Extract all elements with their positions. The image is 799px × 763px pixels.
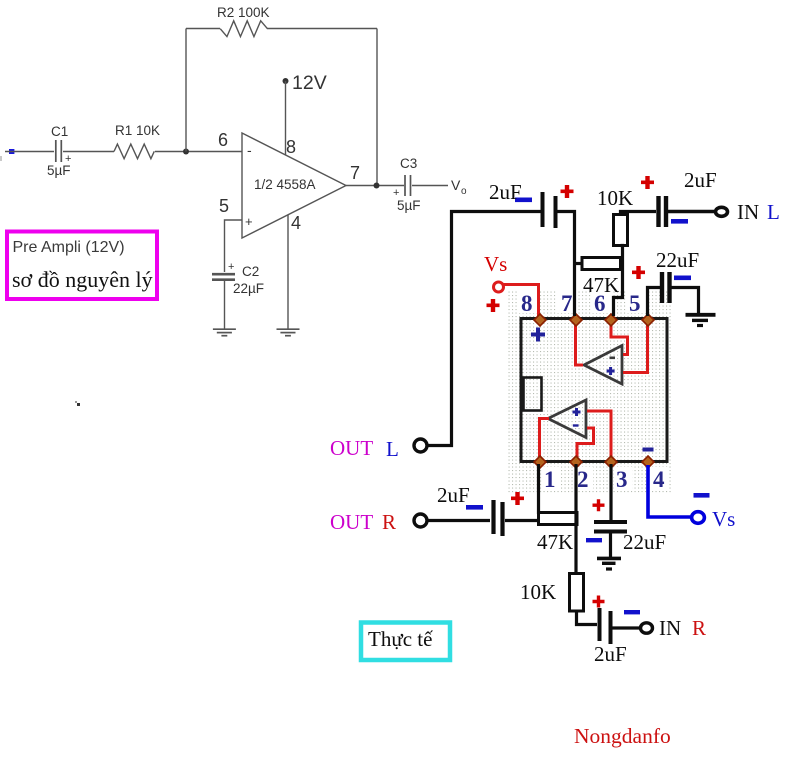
op-amp A minus bbox=[610, 357, 616, 360]
white patch pin 1 bbox=[542, 467, 560, 489]
pin pad 5 bbox=[642, 314, 654, 326]
wire R1 to op-amp bbox=[155, 151, 242, 153]
svg-text:L: L bbox=[767, 200, 780, 224]
svg-text:5µF: 5µF bbox=[47, 163, 71, 178]
svg-text:2: 2 bbox=[577, 467, 589, 492]
ground below C2 bbox=[213, 328, 236, 330]
svg-text:12V: 12V bbox=[292, 72, 327, 94]
op-amp B plus bbox=[573, 408, 581, 416]
svg-text:C2: C2 bbox=[242, 264, 259, 279]
resistor R1 10K bbox=[114, 144, 154, 159]
svg-text:5µF: 5µF bbox=[397, 198, 421, 213]
minus Vs bottom bbox=[694, 493, 710, 498]
ground bottom bbox=[597, 557, 621, 561]
minus 2uF out L bbox=[515, 198, 532, 203]
plus 22uF bottom bbox=[593, 499, 605, 511]
svg-text:1: 1 bbox=[544, 467, 556, 492]
svg-text:6: 6 bbox=[218, 130, 228, 150]
capacitor 22uF top right plate bbox=[667, 272, 671, 303]
svg-text:Pre Ampli (12V): Pre Ampli (12V) bbox=[13, 239, 125, 256]
red wire pin 5 to opamp A non-inverting input bbox=[623, 322, 648, 373]
input terminal blue square bbox=[9, 149, 14, 154]
minus IN R bbox=[624, 610, 640, 614]
svg-text:+: + bbox=[228, 261, 234, 273]
wire C2 to ground bbox=[224, 280, 226, 329]
wire 47K right lead bbox=[621, 262, 623, 265]
svg-text:R: R bbox=[692, 616, 706, 640]
capacitor C2 bbox=[212, 273, 235, 276]
plus 2uF IN L bbox=[641, 176, 654, 189]
svg-text:3: 3 bbox=[616, 467, 628, 492]
resistor 10K bottom bbox=[570, 574, 584, 612]
wire input to C1 bbox=[5, 151, 54, 153]
svg-text:22uF: 22uF bbox=[656, 248, 699, 272]
wire C1 to R1 bbox=[63, 151, 114, 153]
wire pin 4 to Vs (blue) bbox=[648, 465, 704, 523]
pin 5 wire bbox=[225, 220, 243, 272]
white patch pin 5 bbox=[627, 291, 647, 313]
svg-text:OUT: OUT bbox=[330, 436, 373, 460]
capacitor 2uF out L left plate bbox=[541, 192, 545, 227]
pin pad 6 bbox=[605, 314, 617, 326]
wire pin 3 down bbox=[609, 464, 612, 520]
terminal IN R bbox=[641, 623, 653, 633]
resistor R2 100K bbox=[220, 21, 267, 37]
plus Vs top bbox=[487, 299, 500, 312]
minus 2uF OUT R bbox=[466, 505, 483, 510]
svg-text:22µF: 22µF bbox=[233, 281, 264, 296]
terminal OUT R bbox=[414, 514, 427, 527]
plus IN R bbox=[593, 596, 605, 608]
wire top left bbox=[186, 28, 220, 30]
pin pad 1 bbox=[534, 456, 546, 468]
capacitor C3 bbox=[404, 175, 406, 196]
svg-text:Nongdanfo: Nongdanfo bbox=[574, 724, 671, 748]
ground below pin 4 bbox=[277, 328, 300, 330]
IC U2 body outline bbox=[521, 319, 667, 462]
output node dot bbox=[374, 183, 380, 189]
wire IN L cap to terminal bbox=[668, 210, 714, 214]
svg-text:-: - bbox=[247, 142, 252, 158]
12V supply dot bbox=[283, 78, 289, 84]
wire cap to pin 7 drop bbox=[557, 212, 575, 317]
wire cap to 47K bottom bbox=[505, 519, 540, 522]
wire 10K bottom to IN R cap bbox=[577, 611, 598, 625]
plus 2uF OUT R bbox=[511, 492, 524, 505]
svg-text:47K: 47K bbox=[583, 273, 619, 297]
wire 10K bottom / 47K right to pin 6 bbox=[614, 246, 623, 317]
red wire pin 6 to opamp A inverting input bbox=[611, 322, 628, 355]
svg-text:Vs: Vs bbox=[484, 252, 507, 276]
op-amp U1 triangle bbox=[242, 133, 346, 238]
Thuc te box cyan bbox=[361, 623, 450, 661]
pin pad 2 bbox=[570, 456, 582, 468]
white patch pin 2 bbox=[575, 467, 593, 489]
svg-text:IN: IN bbox=[737, 200, 759, 224]
red wire pin 7 to opamp A output bbox=[576, 322, 584, 365]
capacitor 2uF IN L left plate bbox=[656, 196, 660, 227]
svg-text:8: 8 bbox=[286, 137, 296, 157]
svg-text:V: V bbox=[451, 177, 461, 193]
terminal Vs bottom bbox=[692, 512, 705, 524]
pin pad 3 bbox=[605, 456, 617, 468]
op-amp A (top) triangle bbox=[584, 346, 622, 385]
white patch pin 8 bbox=[518, 291, 538, 313]
minus 22uF bottom bbox=[586, 538, 602, 542]
capacitor 22uF top left plate bbox=[660, 272, 664, 303]
wire top right bbox=[267, 28, 377, 30]
white patch pin 7 bbox=[557, 291, 577, 313]
capacitor 2uF IN R right plate bbox=[609, 611, 613, 644]
svg-text:Vs: Vs bbox=[712, 507, 735, 531]
plus 22uF top bbox=[632, 266, 645, 279]
blue plus inside IC top-left bbox=[531, 328, 545, 342]
ground top right bbox=[686, 313, 716, 317]
terminal IN L bbox=[716, 207, 728, 216]
svg-text:sơ đồ nguyên lý: sơ đồ nguyên lý bbox=[12, 267, 153, 292]
svg-text:R: R bbox=[382, 510, 396, 534]
wire C3 to Vo bbox=[412, 185, 448, 187]
svg-text:7: 7 bbox=[350, 163, 360, 183]
white patch pin 6 bbox=[592, 291, 612, 313]
capacitor 22uF bottom top plate bbox=[594, 520, 627, 524]
svg-text:8: 8 bbox=[521, 291, 533, 316]
capacitor C1 bbox=[55, 140, 57, 162]
white patch pin 3 bbox=[614, 467, 632, 489]
thick wire OUT L riser bbox=[428, 212, 543, 446]
op-amp B (bottom) triangle bbox=[548, 400, 586, 438]
svg-text:5: 5 bbox=[629, 291, 641, 316]
svg-text:L: L bbox=[386, 437, 399, 461]
stray speck bbox=[75, 401, 77, 403]
svg-text:10K: 10K bbox=[597, 186, 633, 210]
op-amp B minus bbox=[573, 424, 579, 426]
white patch pin 4 bbox=[651, 467, 669, 489]
wire pin 1 down bbox=[537, 464, 540, 514]
red wire opamp B output to pin 1 bbox=[540, 419, 550, 460]
svg-text:IN: IN bbox=[659, 616, 681, 640]
resistor 47K bottom bbox=[539, 513, 578, 525]
svg-text:2uF: 2uF bbox=[489, 180, 522, 204]
capacitor 2uF out L right plate bbox=[554, 196, 558, 228]
terminal OUT L bbox=[414, 439, 427, 452]
svg-text:2uF: 2uF bbox=[684, 168, 717, 192]
capacitor 2uF IN R left plate bbox=[598, 608, 602, 641]
svg-text:4: 4 bbox=[653, 467, 665, 492]
svg-text:C3: C3 bbox=[400, 156, 417, 171]
resistor 10K top bbox=[614, 215, 628, 246]
wire 22uF to ground bottom bbox=[609, 533, 612, 558]
pin pad 8 bbox=[534, 314, 654, 468]
feedback wire left vertical bbox=[185, 29, 187, 152]
plus 2uF out L bbox=[561, 185, 574, 198]
red wire opamp B non-inverting input to pin 3 bbox=[587, 411, 611, 459]
pin 4 wire bbox=[287, 215, 289, 329]
wire 22uF to ground bbox=[671, 288, 699, 315]
svg-text:OUT: OUT bbox=[330, 510, 373, 534]
red wire opamp B inverting input to pin 2 bbox=[577, 428, 594, 459]
svg-text:22uF: 22uF bbox=[623, 530, 666, 554]
Vs top terminal red bbox=[494, 282, 504, 292]
svg-text:4: 4 bbox=[291, 213, 301, 233]
svg-text:5: 5 bbox=[219, 196, 229, 216]
red wire Vs to pin 8 bbox=[503, 285, 539, 317]
svg-text:Thực tế: Thực tế bbox=[368, 627, 433, 651]
title box Pre Ampli bbox=[7, 232, 157, 300]
wire pin 2 down bbox=[574, 464, 577, 574]
feedback wire right vertical bbox=[376, 29, 378, 186]
svg-text:R1 10K: R1 10K bbox=[115, 123, 160, 138]
minus 2uF IN L bbox=[671, 219, 688, 224]
wire OUT R terminal to cap bbox=[428, 519, 490, 522]
svg-text:R2 100K: R2 100K bbox=[217, 5, 270, 20]
wire pin 5 to 22uF bbox=[648, 288, 661, 317]
blue minus inside IC near pin 4 bbox=[643, 448, 654, 452]
svg-text:C1: C1 bbox=[51, 124, 68, 139]
capacitor 2uF OUT R right plate bbox=[500, 502, 504, 536]
pin pad 7 bbox=[570, 314, 582, 326]
svg-text:10K: 10K bbox=[520, 580, 556, 604]
resistor 47K top bbox=[582, 258, 621, 270]
svg-text:o: o bbox=[461, 186, 467, 197]
wire 12V to pin 8 bbox=[285, 81, 287, 155]
minus 22uF top bbox=[674, 276, 691, 281]
capacitor 2uF IN L right plate bbox=[664, 196, 668, 227]
svg-text:1/2 4558A: 1/2 4558A bbox=[254, 177, 316, 192]
svg-text:47K: 47K bbox=[537, 530, 573, 554]
wire IN R cap to terminal bbox=[612, 626, 640, 629]
capacitor 22uF bottom bottom plate bbox=[594, 530, 627, 534]
svg-text:+: + bbox=[245, 214, 253, 229]
svg-text:2uF: 2uF bbox=[437, 483, 470, 507]
wire 10K top to IN L cap bbox=[621, 212, 657, 216]
output wire pin 7 bbox=[346, 185, 404, 187]
pin pad 4 bbox=[642, 456, 654, 468]
internal resistor block bbox=[524, 378, 542, 411]
node A junction dot bbox=[183, 149, 189, 155]
op-amp A plus bbox=[607, 367, 615, 375]
svg-text:7: 7 bbox=[561, 291, 573, 316]
capacitor 2uF OUT R left plate bbox=[491, 500, 495, 534]
IC stippled background bbox=[508, 291, 672, 494]
wire 47K left lead bbox=[575, 262, 583, 265]
svg-text:2uF: 2uF bbox=[594, 642, 627, 666]
